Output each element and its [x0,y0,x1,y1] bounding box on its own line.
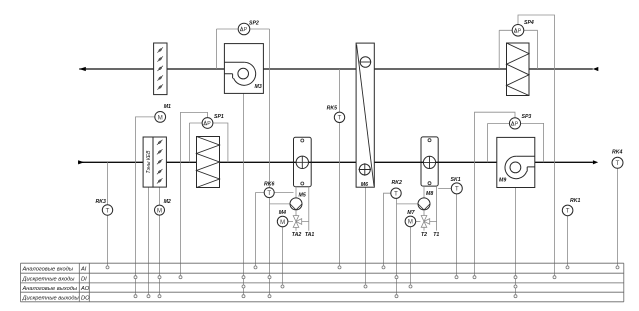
arrow bottom-right supply out [593,160,598,164]
wire RK1 to AI [567,216,569,266]
wire RK5 to AI [339,69,341,266]
wire RK2 to AI [384,193,391,265]
wire SK1 to DI [456,194,458,276]
svg-text:M4: M4 [279,210,286,216]
filter SP4 [507,43,530,96]
water heater 2 [421,137,438,186]
svg-text:Аналоговые входы: Аналоговые входы [22,267,74,273]
svg-text:SP3: SP3 [522,114,532,120]
svg-text:T1: T1 [433,232,439,238]
svg-text:T: T [338,116,342,122]
sensor SK1 [438,177,462,194]
svg-text:RK3: RK3 [96,199,106,205]
svg-text:M: M [408,220,413,226]
svg-text:SP4: SP4 [524,20,534,26]
svg-text:TA2: TA2 [292,232,302,238]
wire SP3 signal to DI [475,112,516,275]
svg-text:Аналоговые выходы: Аналоговые выходы [22,286,78,292]
table row labels [22,267,91,302]
svg-text:T: T [106,208,110,214]
actuator M1 [155,104,171,122]
wire M4 to AO [282,227,284,285]
svg-text:M6: M6 [361,182,368,188]
wire M3 to DI/AO/DO [243,93,245,294]
DI connection nodes [134,276,556,279]
damper M1 blades [157,47,163,89]
pump M8 [418,186,433,210]
svg-text:AO: AO [80,286,90,292]
arrow top-left exhaust out [79,67,86,71]
recuperator M6 [356,43,374,188]
svg-text:M7: M7 [407,210,415,216]
svg-text:Дискретные выходы: Дискретные выходы [22,296,80,302]
svg-text:M9: M9 [499,178,506,184]
svg-text:P: P [207,121,211,127]
water heater 1 [294,137,312,186]
svg-text:P: P [518,28,522,34]
svg-text:T: T [616,161,620,167]
sensor SP1 [189,114,228,163]
damper M1 box [154,43,167,95]
svg-text:P: P [244,27,248,33]
svg-text:T: T [267,191,271,197]
sensor RK5 [327,106,345,123]
wire top exhaust duct [79,68,593,70]
fan M9 [497,137,535,187]
wire RK4 to AI [617,168,619,265]
pump M5 [290,187,306,210]
svg-text:M3: M3 [255,84,262,90]
sensor SP4 [499,20,537,69]
wire bottom supply duct [78,161,593,163]
svg-text:T: T [566,209,570,215]
sensor RK2 [391,180,402,198]
sensor SP2 [217,21,270,70]
wire SP2/M5 to DI/DO [270,29,291,294]
svg-text:RK1: RK1 [570,198,580,204]
svg-text:Дискретные входы: Дискретные входы [22,276,76,282]
sensor RK1 [562,198,580,216]
svg-text:SP1: SP1 [214,114,224,120]
wire RK2/M8 to DI/DO [397,198,419,294]
wire M2 to DI/DO [159,187,161,294]
svg-text:M: M [158,115,163,121]
wire SP1 signal to DI [181,112,208,275]
table grid [21,263,624,302]
actuator M7 [405,210,420,227]
svg-text:M: M [157,208,162,214]
svg-text:AI: AI [80,267,87,273]
wire M6 to AO [365,187,367,285]
arrow top-right extract in [593,67,599,71]
svg-text:RK6: RK6 [264,182,274,188]
sensor RK3 [96,199,113,215]
svg-text:M2: M2 [164,199,171,205]
wire heater KEV to DO [148,187,150,294]
wire M7 to AO [410,227,412,285]
sensor RK4 [612,150,623,169]
svg-text:RK4: RK4 [612,150,622,156]
actuator M4 [277,210,293,227]
svg-text:M: M [280,220,285,226]
svg-text:SK1: SK1 [451,177,461,183]
filter SP1 [197,137,220,188]
AI connection nodes [106,266,619,269]
sensor RK6 [264,182,294,198]
svg-text:DO: DO [81,296,90,302]
svg-text:SP2: SP2 [249,21,259,27]
svg-text:M8: M8 [426,191,433,197]
svg-text:T: T [394,192,398,198]
svg-text:P: P [515,121,519,127]
valve 2 with T pipes [421,186,436,231]
svg-text:RK5: RK5 [327,106,337,112]
damper M2 blades [157,140,163,184]
svg-text:M5: M5 [299,193,306,199]
svg-text:M1: M1 [164,104,171,110]
svg-text:T2: T2 [421,232,427,238]
wire M1 to DI/DO [136,117,155,295]
svg-text:DI: DI [81,276,87,282]
svg-text:TA1: TA1 [305,232,315,238]
DO connection nodes [134,295,517,298]
wire SP4 signal to DI [518,15,555,275]
svg-text:Тэны КЕВ: Тэны КЕВ [146,150,152,174]
svg-text:RK2: RK2 [392,180,402,186]
svg-text:T: T [455,187,459,193]
valve 1 with TA pipes [293,187,309,231]
arrow bottom-left outdoor air in [78,160,84,164]
electric heater box [143,137,153,187]
wire RK6 to AI [256,193,265,266]
wire RK3 to AI [107,162,109,265]
fan M3 [224,44,263,94]
damper M2 box [153,137,166,187]
sensor SP3 [488,114,544,162]
actuator M2 [155,199,171,215]
AO connection nodes [242,285,517,288]
wire M9 to DI/AO/DO [515,188,517,295]
